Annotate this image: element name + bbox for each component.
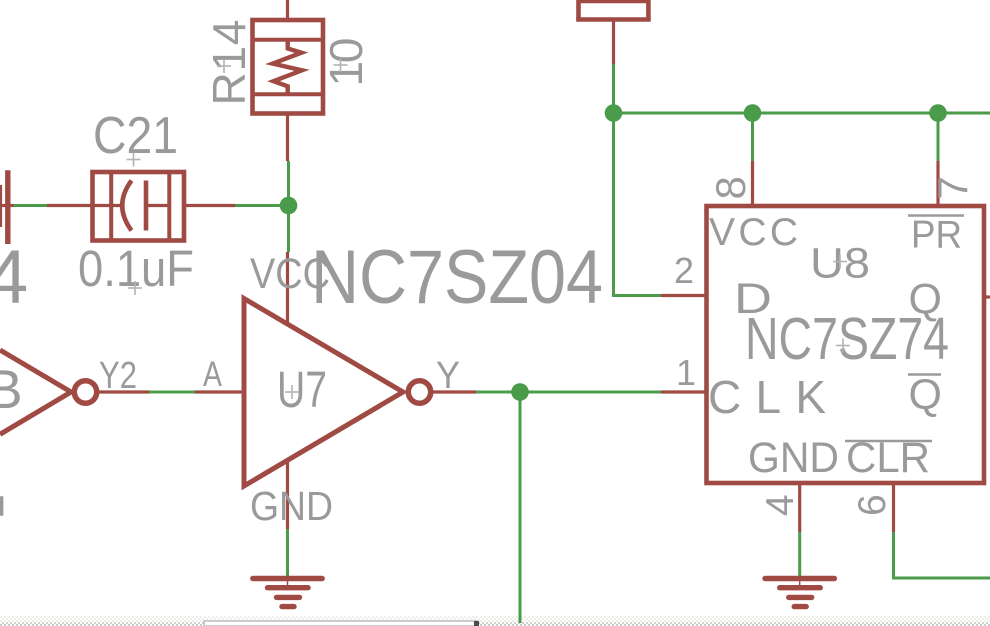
capacitor C21 bbox=[93, 172, 185, 241]
wire R14 down through junction to U7 VCC bbox=[287, 161, 290, 252]
svg-text:CLK: CLK bbox=[708, 371, 826, 423]
svg-text:NC7SZ74: NC7SZ74 bbox=[745, 306, 949, 372]
pin U8 D (2) bbox=[661, 294, 707, 297]
svg-text:10: 10 bbox=[320, 38, 372, 87]
pin left inverter output bbox=[97, 390, 149, 393]
origin cross C21 name bbox=[127, 153, 141, 167]
ground under U7 bbox=[253, 579, 322, 607]
svg-text:GND: GND bbox=[250, 483, 333, 529]
svg-text:1: 1 bbox=[676, 352, 696, 393]
origin cross U8 value bbox=[836, 339, 850, 353]
origin cross C21 value bbox=[128, 281, 142, 295]
resistor R14 bbox=[253, 20, 324, 114]
pin U8 CLR (6) bbox=[892, 483, 895, 532]
origin cross R14 name bbox=[217, 59, 231, 73]
pin U8 CLK (1) bbox=[661, 390, 707, 393]
ground under U8 pin 4 bbox=[765, 579, 834, 607]
pin U7 VCC bbox=[286, 252, 289, 325]
top partial component box bbox=[576, 0, 651, 20]
pin U7 A bbox=[195, 390, 244, 393]
svg-text:R14: R14 bbox=[203, 20, 255, 106]
pin C21 right bbox=[184, 204, 235, 207]
svg-text:7: 7 bbox=[929, 176, 976, 199]
svg-text:NC7SZ04: NC7SZ04 bbox=[311, 235, 603, 320]
wire Y net U7 output to CLK bbox=[476, 391, 661, 394]
svg-text:GND: GND bbox=[748, 434, 839, 482]
pin U8 VCC (8) bbox=[751, 161, 754, 206]
svg-text:8: 8 bbox=[707, 176, 754, 199]
wire pin4 to ground bbox=[798, 532, 801, 578]
junction dot VCC/top component bbox=[605, 104, 623, 122]
pin U8 GND (4) bbox=[798, 483, 801, 532]
capacitor partial at left edge bbox=[1, 170, 8, 244]
wire pin6 CLR net bbox=[894, 532, 990, 578]
svg-text:2: 2 bbox=[674, 250, 694, 291]
inverter U6B partial triangle bbox=[0, 350, 71, 434]
wire VCC net to pin 8 bbox=[751, 113, 754, 161]
wire VCC net down to D pin bbox=[614, 113, 662, 296]
svg-text:Y2: Y2 bbox=[99, 355, 137, 397]
svg-text:A: A bbox=[203, 355, 223, 394]
overline PR bbox=[908, 214, 964, 217]
svg-text:C21: C21 bbox=[93, 107, 178, 165]
pin U7 Y bbox=[431, 390, 476, 393]
wire VCC net to pin 7 bbox=[937, 113, 940, 161]
junction dot Y net bbox=[511, 383, 529, 401]
wire stub left capacitor bbox=[0, 204, 14, 207]
inverter U7 output bubble bbox=[408, 381, 430, 403]
pin U8 PR (7) bbox=[936, 161, 939, 206]
label partial GND of left inverter bbox=[0, 496, 3, 516]
pin of top component bbox=[612, 20, 615, 65]
svg-text:6: 6 bbox=[851, 494, 894, 516]
svg-text:B: B bbox=[0, 358, 23, 420]
wire C21 to VCC junction bbox=[235, 204, 289, 207]
wire Y net down to sheet bottom bbox=[519, 392, 522, 623]
svg-text:Q: Q bbox=[909, 371, 942, 419]
origin cross R14 value bbox=[334, 58, 348, 72]
svg-text:VCC: VCC bbox=[709, 211, 798, 254]
svg-text:Y: Y bbox=[436, 355, 460, 397]
pin C21 left bbox=[47, 204, 93, 207]
wire Y2 net bbox=[149, 391, 195, 394]
pin R14 top bbox=[286, 0, 289, 20]
op-amp/inverter U7 triangle bbox=[244, 299, 403, 487]
sheet edge stipple band bbox=[0, 616, 990, 622]
overline CLR bbox=[845, 440, 932, 443]
wire net VCC top horizontal bbox=[614, 112, 990, 115]
title block top sliver bbox=[204, 621, 479, 626]
wire U7 GND to ground bbox=[286, 529, 289, 578]
pin U8 Q bbox=[984, 295, 990, 298]
wire left cap to C21 bbox=[14, 204, 48, 207]
junction dot C21/R14 bbox=[280, 197, 298, 215]
origin cross U7 bbox=[285, 385, 299, 399]
flip-flop U8 box bbox=[707, 206, 985, 483]
origin cross U8 name bbox=[833, 255, 847, 269]
svg-text:PR: PR bbox=[911, 214, 962, 257]
svg-text:4: 4 bbox=[0, 235, 28, 320]
overline Qbar bbox=[908, 373, 941, 376]
svg-text:4: 4 bbox=[759, 494, 802, 516]
inverter U6B output bubble bbox=[74, 381, 96, 403]
junction dot VCC/pin7 bbox=[929, 104, 947, 122]
wire from top component to VCC net bbox=[612, 64, 615, 113]
pin R14 bottom bbox=[286, 114, 289, 162]
svg-text:U7: U7 bbox=[277, 361, 327, 418]
junction dot VCC/pin8 bbox=[744, 104, 762, 122]
pin U7 GND bbox=[286, 458, 289, 529]
